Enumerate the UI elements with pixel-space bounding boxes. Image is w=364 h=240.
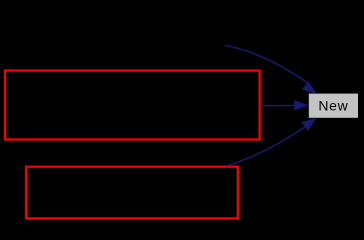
edge 2: horizontal arrow from node box 1 into left of New: [260, 100, 309, 110]
node box 1 (red-bordered caller node, label hidden): [5, 71, 260, 140]
edge 1: curve from upper-left into top of New: [225, 45, 316, 94]
node box 2 (red-bordered caller node, label hidden): [26, 167, 238, 219]
svg-text:New: New: [318, 97, 348, 113]
node New (current node, gray fill): [309, 94, 358, 118]
edge 3: curve from node box 2 into bottom of New: [226, 118, 316, 166]
